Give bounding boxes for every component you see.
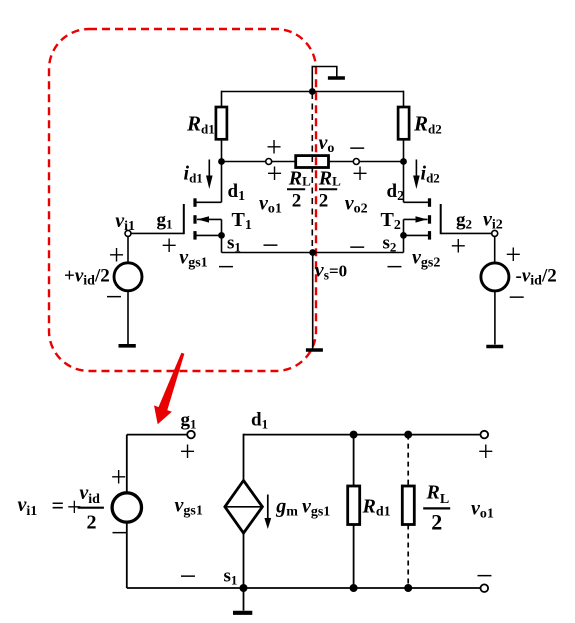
- voltage source -vid/2: [481, 263, 509, 291]
- red dashed enclosure box: [49, 29, 316, 371]
- ground (right): [486, 345, 503, 349]
- red arrow from box to half-circuit: [154, 353, 184, 425]
- svg-text:−: −: [217, 250, 234, 283]
- wire vi2 down to source: [494, 236, 496, 263]
- svg-text:2: 2: [319, 190, 329, 211]
- ground (top): [312, 67, 337, 92]
- node bottom Rd1: [350, 584, 358, 592]
- wire vi1 down to source: [127, 236, 129, 262]
- T2 channel bars: [428, 198, 431, 207]
- wire rail to Rd2: [403, 91, 405, 108]
- input terminal vi1: [125, 230, 131, 236]
- svg-text:2: 2: [87, 512, 97, 534]
- T2 gate line: [440, 204, 442, 234]
- ground (left): [119, 344, 136, 348]
- svg-text:g2: g2: [456, 210, 472, 232]
- node bottom RL: [404, 584, 412, 592]
- output terminal vo1 top (half circuit): [481, 431, 489, 439]
- T1 gate line: [183, 204, 185, 234]
- node top Rd1: [350, 431, 358, 439]
- svg-text:Rd1: Rd1: [362, 496, 391, 520]
- wire node d1 to load left terminal: [222, 161, 266, 163]
- T1 source stub: [196, 234, 222, 236]
- T2 source node: [400, 232, 407, 239]
- terminal g1 (half circuit): [187, 431, 195, 439]
- load resistor RL (horizontal, between vo1 and vo2): [296, 156, 329, 168]
- svg-text:id2: id2: [421, 163, 440, 186]
- transistor T1: [184, 198, 225, 252]
- resistor RL/2 branch (half circuit, dashed): [407, 435, 409, 486]
- svg-text:vgs2: vgs2: [412, 247, 440, 271]
- T2 source stub: [404, 234, 429, 236]
- svg-text:g1: g1: [181, 410, 197, 432]
- wire terminal to node d2: [359, 161, 403, 163]
- svg-text:d1: d1: [251, 410, 268, 432]
- wire node d1 down to T1 drain: [221, 162, 223, 203]
- T1 source wire down: [221, 235, 223, 252]
- ground (half circuit): [243, 588, 245, 611]
- svg-text:vo2: vo2: [345, 192, 368, 216]
- transistor T2: [400, 198, 441, 252]
- top rail (half circuit): [244, 434, 485, 436]
- wire node d2 down to T2 drain: [403, 162, 405, 203]
- node on top rail: [309, 88, 316, 95]
- svg-text:2: 2: [431, 509, 442, 534]
- resistor Rd1: [216, 107, 227, 139]
- svg-text:vi2: vi2: [483, 209, 503, 233]
- svg-text:+: +: [267, 159, 283, 190]
- T2 body stub with arrow: [404, 218, 428, 220]
- svg-text:−: −: [180, 560, 197, 593]
- source rail (vs): [222, 252, 404, 254]
- node s1: [240, 584, 248, 592]
- svg-text:vgs1: vgs1: [175, 495, 203, 519]
- svg-text:+: +: [450, 231, 466, 262]
- svg-text:+vid/2: +vid/2: [64, 265, 110, 288]
- current arrow id1: [208, 160, 210, 178]
- svg-text:d1: d1: [228, 181, 246, 204]
- svg-text:+: +: [161, 231, 177, 262]
- svg-text:vs=0: vs=0: [315, 259, 347, 282]
- svg-text:vo1: vo1: [471, 498, 494, 522]
- svg-text:+: +: [111, 463, 127, 494]
- svg-text:RL: RL: [288, 168, 311, 190]
- wire source down to bottom rail: [126, 522, 128, 588]
- svg-text:gm vgs1: gm vgs1: [275, 496, 330, 520]
- dependent source gm*vgs1 (diamond): [225, 481, 263, 534]
- svg-text:2: 2: [292, 190, 302, 211]
- svg-text:+: +: [352, 159, 368, 190]
- node vs: [309, 249, 316, 256]
- terminal vo1 (open circle): [266, 159, 272, 165]
- wire vs to ground: [312, 253, 314, 349]
- svg-text:T2: T2: [381, 209, 401, 233]
- wire Rd2 to node d2: [403, 139, 405, 162]
- svg-text:vo: vo: [319, 132, 335, 156]
- node d2: [400, 158, 407, 165]
- svg-text:vi1: vi1: [18, 494, 38, 519]
- svg-text:s1: s1: [224, 565, 238, 587]
- T2 drain stub: [404, 201, 429, 203]
- resistor Rd1 branch (half circuit): [353, 435, 355, 486]
- wire RL to right terminal: [329, 161, 354, 163]
- svg-text:id1: id1: [184, 163, 203, 186]
- T1 source node: [218, 232, 225, 239]
- wire top rail to dependent source: [243, 434, 245, 481]
- svg-text:−: −: [386, 250, 403, 283]
- wire source to ground: [127, 291, 129, 344]
- wire source to ground: [494, 291, 496, 345]
- input terminal vi2: [492, 230, 498, 236]
- dependent source arrow: [267, 495, 269, 520]
- output terminal vo1 bottom (half circuit): [481, 584, 489, 592]
- wire vi1 to gate g1: [131, 232, 184, 234]
- voltage source vi1 (half circuit): [112, 493, 141, 522]
- svg-text:−: −: [349, 231, 366, 264]
- T1 channel bars: [193, 198, 196, 207]
- ground (center): [306, 348, 323, 352]
- bottom rail: [127, 587, 485, 589]
- svg-text:Rd2: Rd2: [413, 111, 442, 136]
- svg-text:-vid/2: -vid/2: [516, 265, 557, 288]
- wire dependent source to bottom rail: [243, 533, 245, 588]
- svg-text:T1: T1: [232, 209, 252, 233]
- resistor Rd2: [398, 107, 409, 139]
- svg-text:vo1: vo1: [259, 192, 282, 216]
- wire g1 to left branch: [127, 434, 187, 436]
- svg-text:vi1: vi1: [115, 210, 135, 234]
- svg-text:vgs1: vgs1: [179, 247, 207, 271]
- svg-text:d2: d2: [387, 181, 405, 204]
- symmetry axis (black dashed): [311, 93, 313, 252]
- wire Rd1 to node d1: [221, 139, 223, 162]
- svg-text:RL: RL: [318, 168, 341, 190]
- svg-text:+: +: [109, 241, 125, 272]
- svg-text:−: −: [262, 229, 279, 262]
- svg-text:+: +: [478, 437, 494, 468]
- T1 body stub with arrow: [197, 218, 222, 220]
- voltage source +vid/2: [114, 263, 142, 291]
- wire left branch down to source: [126, 435, 128, 493]
- T1 drain stub: [196, 201, 222, 203]
- svg-text:g1: g1: [157, 210, 173, 232]
- svg-text:−: −: [111, 517, 128, 550]
- terminal vo2 (open circle): [353, 159, 359, 165]
- svg-text:Rd1: Rd1: [186, 111, 215, 136]
- wire terminal to RL: [272, 161, 296, 163]
- current arrow id2: [415, 160, 417, 178]
- svg-text:RL: RL: [426, 482, 450, 508]
- node top RL: [404, 431, 412, 439]
- wire gate g2 to vi2: [441, 232, 492, 234]
- wire top rail: [222, 91, 404, 93]
- T2 source wire down: [403, 235, 405, 252]
- wire rail to Rd1: [221, 91, 223, 108]
- node d1: [218, 158, 225, 165]
- svg-text:=: =: [52, 493, 65, 518]
- svg-text:−: −: [476, 560, 493, 593]
- svg-text:vid: vid: [79, 482, 100, 507]
- svg-text:+: +: [180, 437, 196, 468]
